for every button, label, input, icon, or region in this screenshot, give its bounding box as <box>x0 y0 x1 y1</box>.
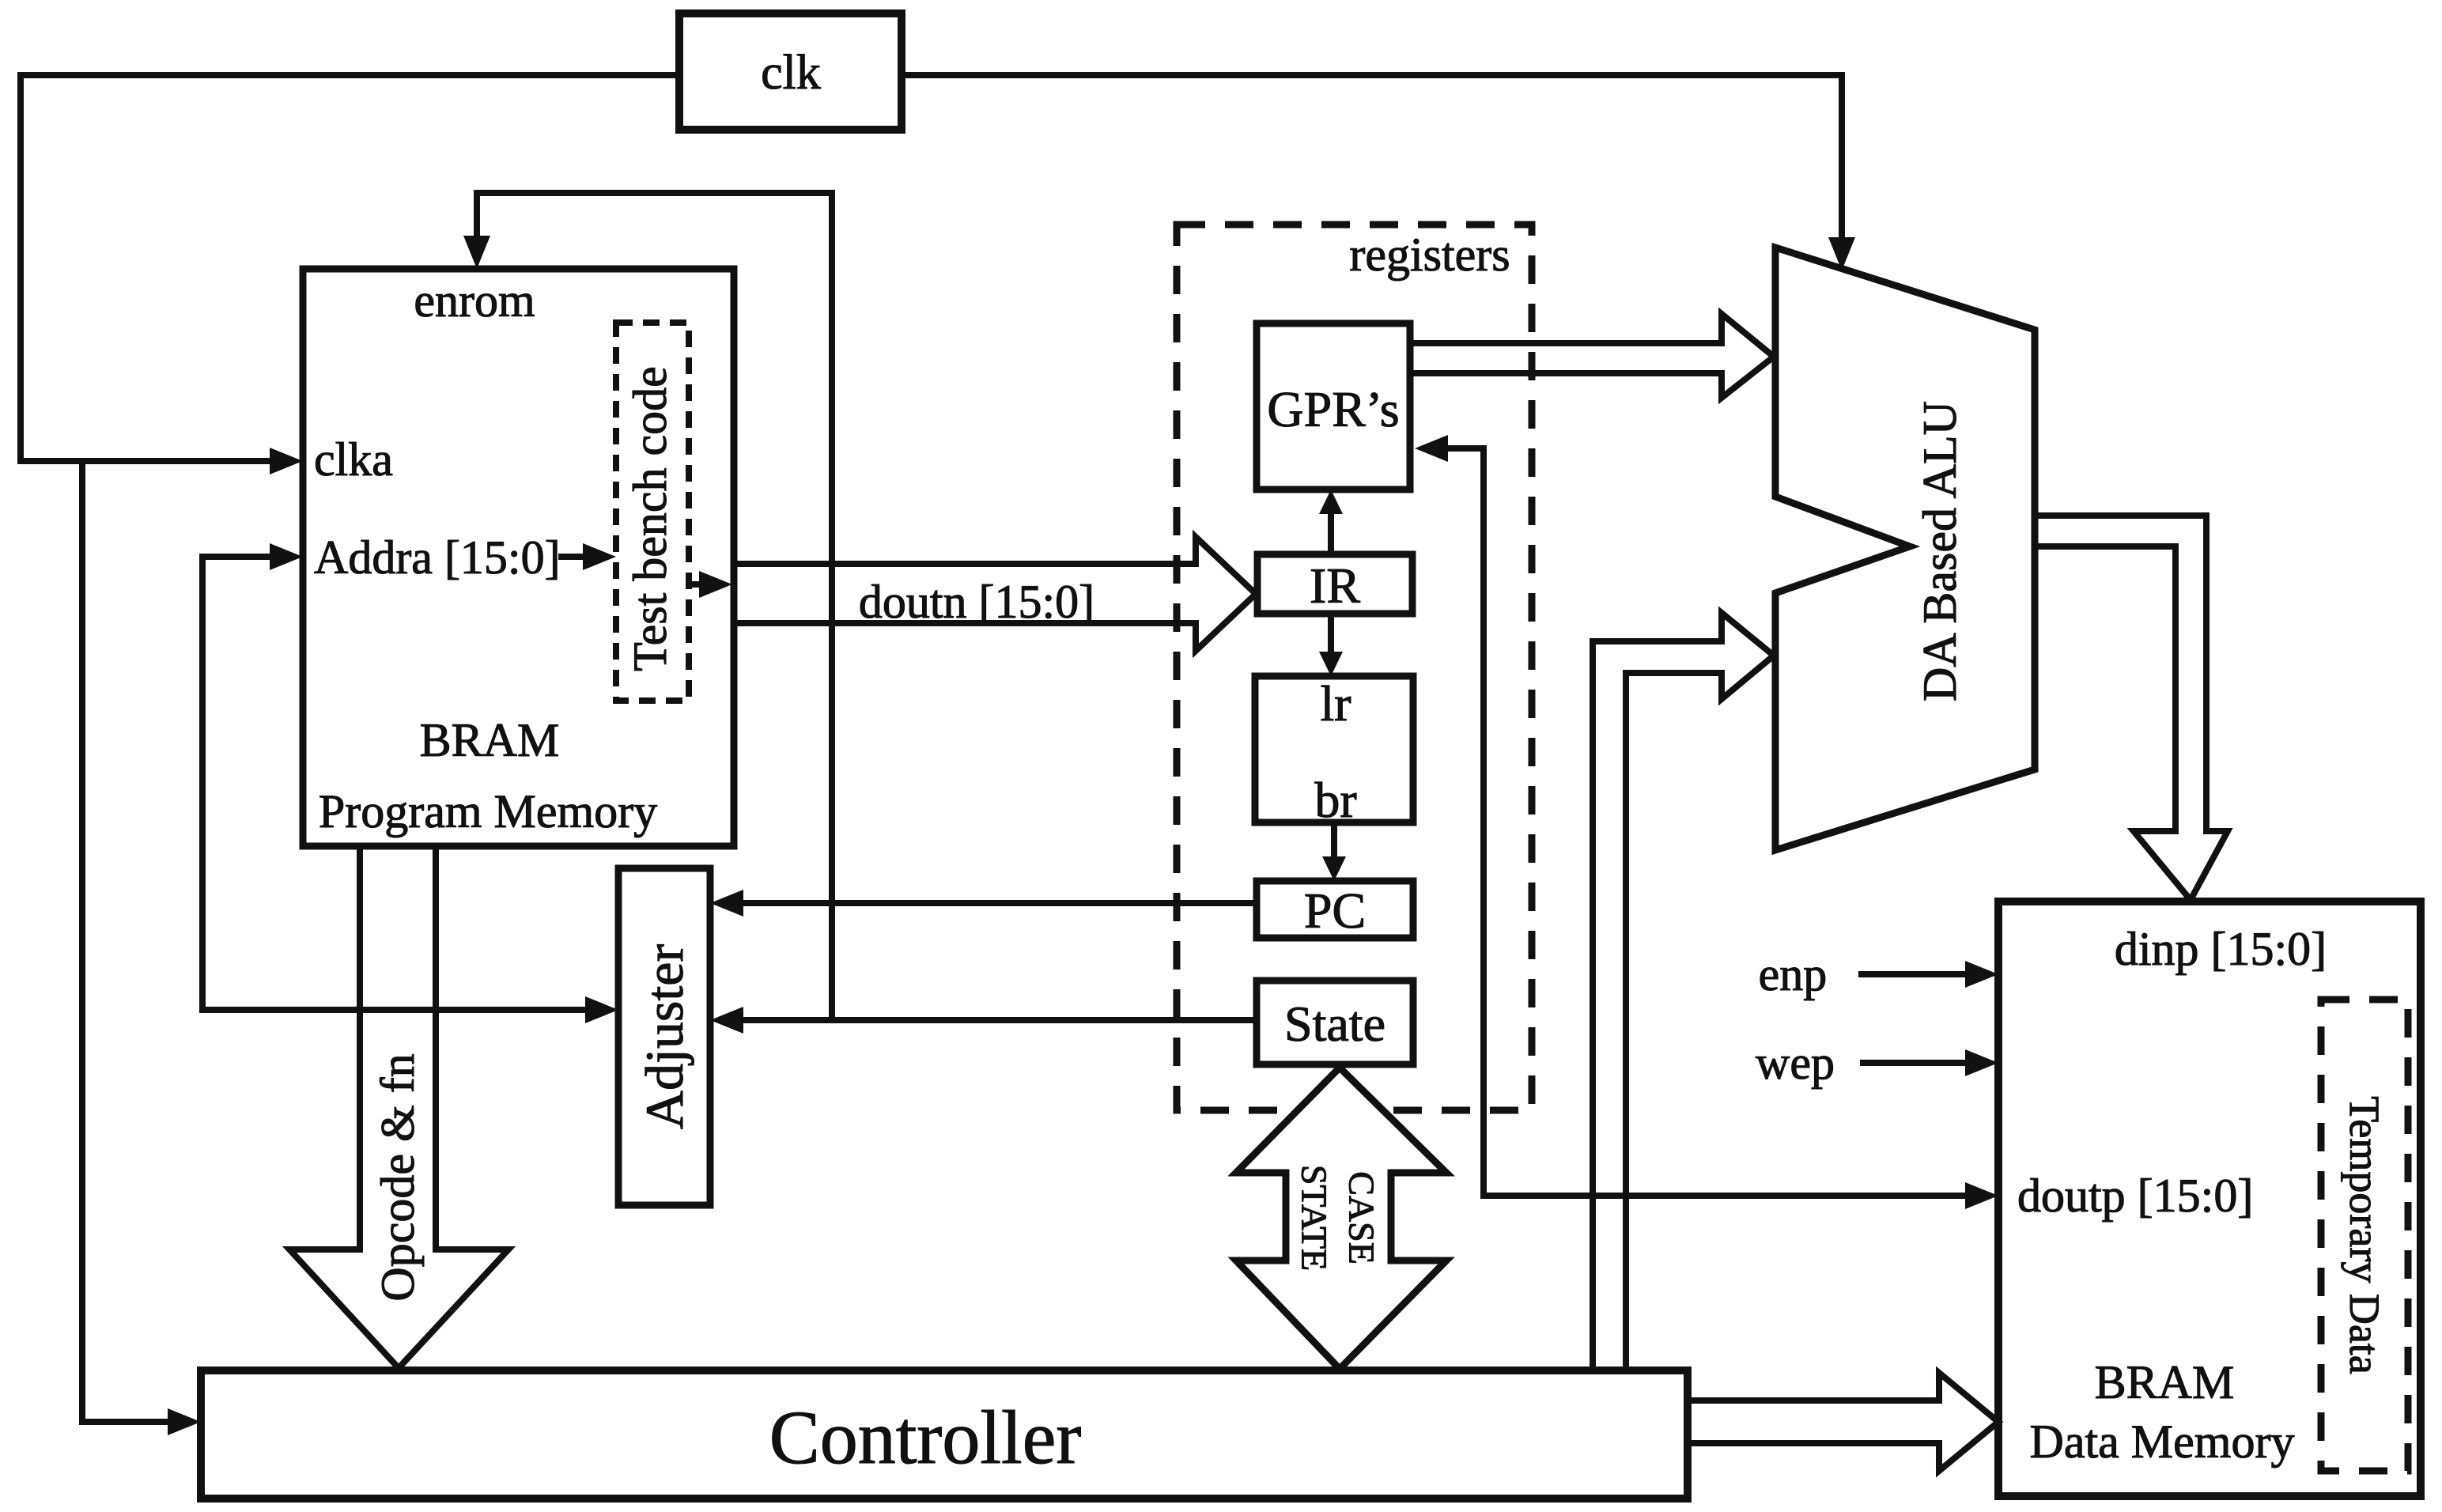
svg-text:Adjuster: Adjuster <box>634 944 694 1130</box>
svg-text:Opcode & fn: Opcode & fn <box>372 1053 424 1301</box>
Controller to ALU hollow L arrow <box>1593 613 1774 1370</box>
svg-text:Data Memory: Data Memory <box>2030 1416 2295 1468</box>
Adjuster box <box>618 868 710 1205</box>
svg-text:enrom: enrom <box>414 274 535 327</box>
wire doutp <box>1415 435 1998 1209</box>
wire clk right to ALU <box>902 75 1855 270</box>
ALU to Data Memory hollow bus arrow <box>2035 516 2228 900</box>
svg-text:IR: IR <box>1310 558 1360 614</box>
Temporary Data dashed box <box>2321 1000 2408 1471</box>
wire clk left feedback <box>21 75 679 474</box>
svg-text:wep: wep <box>1756 1037 1835 1089</box>
State box <box>1257 981 1413 1064</box>
GPR to ALU hollow bus arrow <box>1410 314 1774 398</box>
BRAM Program Memory <box>303 269 734 846</box>
wire enrom feedback <box>463 193 832 1020</box>
wep arrow <box>1756 1037 1998 1089</box>
svg-text:Addra [15:0]: Addra [15:0] <box>314 531 561 584</box>
test bench to edge arrow <box>689 571 732 598</box>
svg-text:dinp [15:0]: dinp [15:0] <box>2115 923 2327 975</box>
arrow br to PC <box>1322 822 1346 881</box>
svg-text:Controller: Controller <box>769 1395 1082 1480</box>
arrow IR to lr <box>1319 614 1343 676</box>
svg-text:DA Based ALU: DA Based ALU <box>1914 401 1966 701</box>
lr br box <box>1255 675 1413 828</box>
svg-text:registers: registers <box>1349 229 1510 281</box>
svg-text:Program Memory: Program Memory <box>319 785 657 837</box>
arrow IR to GPR <box>1319 490 1343 554</box>
wire State to Adjuster <box>710 1007 1257 1034</box>
IR box <box>1257 554 1412 614</box>
clk box <box>679 13 902 130</box>
wire PC to Adjuster <box>710 890 1257 917</box>
BRAM Data Memory box <box>1998 902 2421 1496</box>
svg-text:Temporary Data: Temporary Data <box>2341 1096 2388 1374</box>
svg-text:enp: enp <box>1759 948 1828 1000</box>
PC box <box>1257 881 1413 939</box>
svg-text:Test bench code: Test bench code <box>624 366 676 671</box>
DA Based ALU <box>1775 248 2035 850</box>
Addra internal arrow <box>558 543 616 570</box>
svg-text:lr: lr <box>1320 675 1351 731</box>
svg-text:PC: PC <box>1304 883 1366 939</box>
svg-text:GPR’s: GPR’s <box>1267 381 1399 437</box>
svg-text:clk: clk <box>761 46 821 100</box>
wire clk branch down to Controller <box>82 461 201 1435</box>
Test bench code dashed box <box>616 323 689 701</box>
enp arrow <box>1759 948 1998 1000</box>
svg-text:doutn [15:0]: doutn [15:0] <box>859 576 1094 628</box>
svg-text:STATE: STATE <box>1295 1165 1335 1271</box>
registers dashed box <box>1177 225 1532 1110</box>
svg-text:State: State <box>1284 996 1385 1052</box>
svg-text:doutp [15:0]: doutp [15:0] <box>2017 1170 2253 1222</box>
svg-text:BRAM: BRAM <box>420 714 560 766</box>
svg-text:CASE: CASE <box>1342 1171 1382 1264</box>
GPR's box <box>1257 323 1410 490</box>
Controller box <box>201 1370 1688 1499</box>
CASE STATE double arrow <box>1236 1068 1446 1369</box>
doutn bus hollow arrow <box>734 537 1256 651</box>
Controller to Data Memory block arrow <box>1688 1373 1998 1471</box>
wire Addra-Adjuster <box>202 543 618 1023</box>
Opcode & fn block arrow <box>289 846 508 1368</box>
svg-text:br: br <box>1314 772 1356 828</box>
svg-text:BRAM: BRAM <box>2095 1356 2235 1408</box>
svg-text:clka: clka <box>314 433 393 486</box>
